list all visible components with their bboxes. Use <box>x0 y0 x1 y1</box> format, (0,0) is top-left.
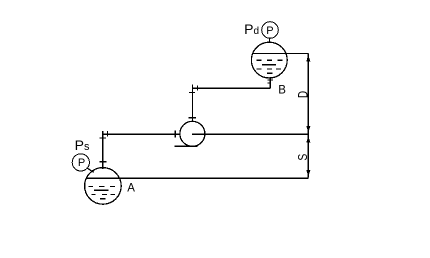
svg-text:A: A <box>127 183 135 195</box>
dimension arrow down at middle (D) <box>306 126 310 133</box>
discharge pipe vertical riser (with corner stub) <box>192 85 194 122</box>
suction riser upper flange tick <box>100 137 107 139</box>
gauge Pd stem <box>268 38 270 43</box>
suction right flange tick <box>174 131 176 138</box>
gauge Ps diagonal connector to tank A <box>87 168 94 173</box>
gauge Pd stem flange tick lower <box>267 41 273 43</box>
gauge Ps circle <box>72 154 89 171</box>
dimension arrow up at top (D) <box>306 55 310 62</box>
svg-text:S: S <box>296 154 310 161</box>
suction pipe horizontal run <box>103 133 180 135</box>
dimension line vertical <box>307 54 309 178</box>
suction vertical riser to tank A <box>102 131 104 169</box>
svg-text:P: P <box>266 25 273 37</box>
suction riser lower flange tick <box>99 161 106 163</box>
tank B vessel <box>251 42 287 78</box>
dimension arrow down at bottom (S) <box>306 170 310 177</box>
discharge horizontal flange tick <box>197 85 199 90</box>
tank B bottom stem <box>269 77 271 88</box>
tank B stem flange tick upper <box>268 79 273 81</box>
svg-text:B: B <box>278 85 286 97</box>
discharge riser upper flange tick <box>189 91 195 93</box>
pump base line <box>175 145 198 147</box>
tank B liquid dashes <box>257 60 283 73</box>
gauge Pd stem flange tick upper <box>267 37 272 39</box>
pump discharge line to dimension line <box>192 133 308 135</box>
tank A vessel <box>85 168 122 205</box>
svg-text:P: P <box>78 157 85 169</box>
tank A liquid dashes <box>89 186 116 198</box>
tank A liquid level line (extends right to dimension line) <box>86 177 308 179</box>
discharge riser lower flange tick <box>189 117 197 119</box>
suction left flange tick <box>107 131 109 137</box>
discharge pipe horizontal run <box>193 87 271 89</box>
gauge Pd circle <box>262 22 279 39</box>
pump circle <box>180 121 205 146</box>
tank B liquid level line (extends right to dimension line) <box>253 53 308 55</box>
svg-text:D: D <box>295 91 311 98</box>
tank B stem flange tick lower <box>268 82 271 84</box>
dimension arrow up at middle (S) <box>306 136 310 143</box>
